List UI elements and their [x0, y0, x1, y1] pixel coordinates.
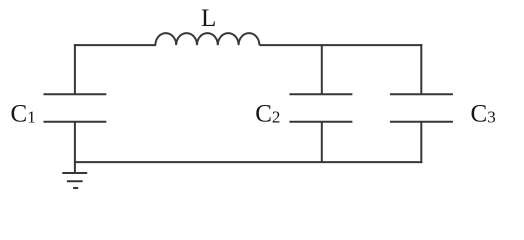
wire: top rail right segment — [259, 44, 422, 46]
wire: C3 lower lead — [420, 122, 422, 163]
wire: vertical from top rail down to C2 top plate — [321, 45, 323, 94]
wire: C1 lower lead down to ground — [74, 122, 76, 173]
capacitor C1 — [43, 94, 106, 122]
wire: left vertical from top rail down to C1 top plate — [74, 44, 76, 94]
wire: top rail left segment — [74, 44, 156, 46]
inductor L — [155, 33, 259, 45]
svg-text:L: L — [201, 5, 216, 32]
svg-text:C1: C1 — [11, 100, 36, 127]
svg-text:C3: C3 — [471, 100, 496, 127]
capacitor C3 — [390, 94, 453, 122]
wire: vertical from top rail down to C3 top plate — [420, 44, 422, 94]
svg-text:C2: C2 — [255, 100, 280, 127]
wire: bottom rail — [75, 161, 422, 163]
ground — [62, 173, 87, 188]
wire: C2 lower lead — [321, 122, 323, 162]
capacitor C2 — [289, 94, 352, 122]
